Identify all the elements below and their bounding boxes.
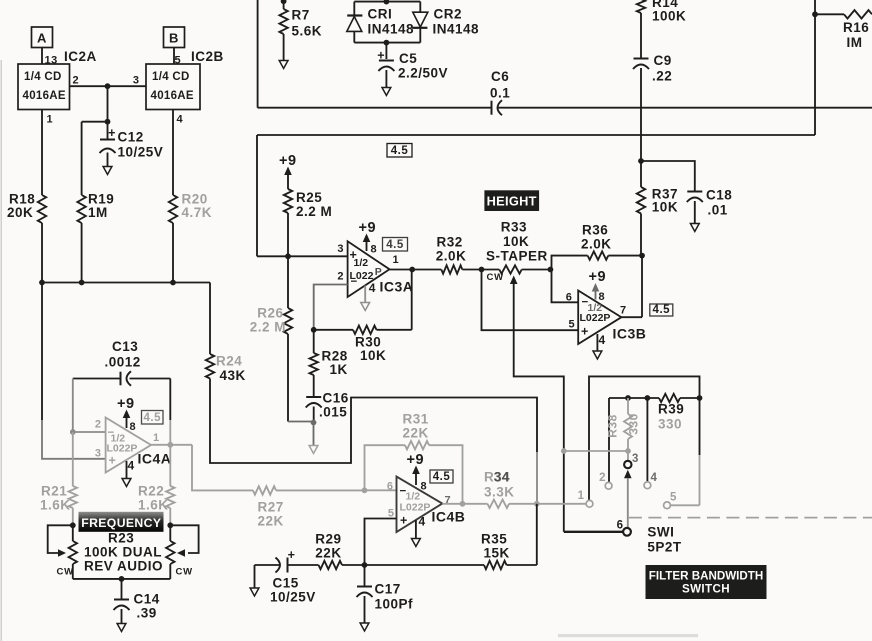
top box bottom wire (258, 107, 492, 109)
ground IC3B pin4 (596, 334, 598, 351)
svg-text:+9: +9 (589, 269, 607, 285)
svg-text:10K: 10K (360, 348, 386, 363)
junction bus R19 (79, 280, 85, 286)
svg-text:2: 2 (337, 271, 344, 283)
wire node B to IC2B (173, 48, 175, 65)
potentiometer R23 right half (169, 525, 171, 541)
svg-text:4.5: 4.5 (653, 304, 671, 316)
svg-text:1.6K: 1.6K (40, 498, 71, 513)
capacitor C17 100Pf (364, 565, 366, 586)
junction CR bottom (384, 40, 390, 46)
resistor R34 3.3K (463, 503, 488, 505)
wire R38 to contact3 (627, 451, 629, 461)
junction R23 left (70, 522, 76, 528)
svg-text:2: 2 (599, 472, 606, 484)
svg-text:1.6K: 1.6K (138, 498, 169, 513)
svg-text:+9: +9 (359, 220, 377, 236)
svg-text:C18: C18 (706, 188, 732, 203)
scan smudge bottom (558, 634, 698, 637)
net 4.5 box IC3A (383, 238, 408, 252)
switch IC2A 1/4 CD4016AE (18, 64, 70, 110)
resistor R30 10K (314, 329, 353, 331)
svg-text:R27: R27 (258, 500, 284, 515)
contact 5 SW1 (664, 502, 671, 509)
svg-text:15K: 15K (484, 546, 510, 561)
junction R23 right (167, 522, 173, 528)
capacitor C14 .39 (121, 579, 123, 599)
resistor R14 100K (637, 0, 645, 13)
svg-text:REV AUDIO: REV AUDIO (84, 559, 163, 574)
svg-text:R32: R32 (437, 235, 463, 250)
svg-text:4: 4 (651, 472, 658, 484)
svg-text:R21: R21 (41, 484, 67, 499)
contact 1 SW1 (586, 500, 593, 507)
diode CR2 IN4148 (419, 2, 421, 13)
junction R38 pole (561, 448, 567, 454)
wire C18 branch (641, 161, 695, 191)
wire C12 node down (107, 86, 109, 122)
capacitor C6 0.1 (491, 101, 493, 115)
svg-text:1/2: 1/2 (354, 257, 369, 269)
svg-text:1: 1 (153, 432, 160, 444)
wire IC4A pin2 (73, 431, 106, 433)
wiper bracket right R23 (170, 525, 198, 553)
svg-text:C13: C13 (112, 339, 138, 354)
wire IC4B out (442, 503, 462, 505)
junction R39 right (697, 395, 703, 401)
wire C13 right leg (169, 379, 171, 421)
resistor R32 2.0K (441, 265, 462, 273)
svg-text:IM: IM (847, 35, 863, 50)
label HEIGHT (484, 190, 539, 211)
wire R16 net vertical (814, 0, 816, 135)
svg-text:C15: C15 (273, 576, 299, 591)
wire IC4B pin6 (365, 489, 397, 491)
svg-text:C16: C16 (323, 391, 349, 406)
svg-text:+: + (400, 514, 408, 528)
svg-text:330: 330 (627, 413, 641, 435)
junction R28 R30 (311, 327, 317, 333)
net 4.5 box top (387, 144, 412, 158)
op-amp IC4A (106, 418, 151, 473)
wire IC3A pin2 (314, 285, 348, 330)
bus wire lower-left (42, 282, 210, 284)
svg-text:C9: C9 (654, 53, 672, 68)
node A input box (32, 27, 53, 48)
svg-text:.0012: .0012 (105, 355, 141, 370)
svg-text:10/25V: 10/25V (270, 590, 316, 605)
junction C14 (119, 576, 125, 582)
svg-text:R35: R35 (481, 532, 507, 547)
resistor R16 1M (815, 13, 844, 15)
wire IC3A out (390, 269, 442, 271)
svg-text:4016AE: 4016AE (23, 90, 66, 102)
wiper bracket left R23 (48, 525, 73, 553)
wire IC4A out route (192, 445, 253, 491)
resistor R25 2.2M (284, 189, 292, 213)
svg-text:4.5: 4.5 (144, 412, 162, 424)
lower box top wire (257, 134, 815, 136)
svg-text:CW: CW (57, 567, 74, 578)
wiper R33 to SW1 pole (510, 276, 518, 285)
junction R33 cw (479, 267, 485, 273)
svg-text:B: B (169, 31, 179, 46)
top box left edge (257, 0, 259, 108)
net 4.5 box IC4B (430, 470, 453, 483)
svg-text:SWITCH: SWITCH (682, 583, 730, 596)
resistor R37 10K (640, 161, 642, 187)
svg-text:5P2T: 5P2T (647, 540, 682, 555)
junction R36 R37 out (639, 253, 645, 259)
svg-text:8: 8 (371, 244, 378, 256)
svg-text:IC3B: IC3B (613, 326, 647, 342)
svg-text:FREQUENCY: FREQUENCY (81, 516, 161, 530)
junction IC4B out (460, 501, 466, 507)
resistor R31 22K (365, 445, 406, 490)
svg-text:2: 2 (73, 75, 80, 87)
resistor R19 1M (81, 122, 83, 195)
svg-text:330: 330 (658, 417, 682, 432)
svg-text:+9: +9 (407, 452, 425, 468)
svg-text:100Pf: 100Pf (375, 597, 414, 612)
svg-text:SWI: SWI (647, 525, 674, 540)
svg-text:C14: C14 (134, 592, 160, 607)
svg-text:IC4A: IC4A (138, 451, 172, 467)
svg-text:R25: R25 (296, 190, 322, 205)
resistor R26 2.2M (287, 256, 289, 308)
svg-text:IC2A: IC2A (64, 49, 97, 64)
contact 6 SW1 (623, 528, 631, 536)
wire contact2 feed (608, 398, 610, 482)
potentiometer R33 10K S-TAPER (499, 265, 521, 273)
wire R39 line (609, 397, 659, 399)
svg-text:2.2 M: 2.2 M (250, 320, 286, 335)
svg-text:5.6K: 5.6K (292, 24, 323, 39)
svg-text:8: 8 (130, 421, 137, 433)
ground IC4B pin4 (415, 520, 417, 539)
contact 4 SW1 (644, 482, 651, 489)
wire IC2A pin2 to node (70, 85, 147, 87)
wire R23 bottom (73, 578, 171, 580)
svg-text:4.5: 4.5 (391, 145, 409, 157)
svg-text:100K: 100K (652, 9, 686, 24)
wire node A to IC2A (41, 48, 43, 65)
svg-text:5: 5 (670, 492, 677, 504)
wire lower box left to pin3 (257, 255, 348, 257)
svg-text:4: 4 (419, 515, 426, 529)
contact 2 SW1 (605, 482, 612, 489)
svg-text:43K: 43K (220, 368, 246, 383)
wire R38 bottom branch (564, 450, 628, 452)
resistor R38 330 (627, 398, 629, 414)
contact 3 SW1 (624, 461, 631, 468)
ground C15 (250, 588, 259, 596)
junction R16 net (812, 11, 818, 17)
svg-text:.015: .015 (319, 405, 347, 420)
wire C13 left leg (72, 379, 74, 433)
svg-text:IC2B: IC2B (191, 49, 224, 64)
svg-text:4: 4 (369, 281, 376, 295)
junction bus R20 (170, 280, 176, 286)
svg-text:8: 8 (421, 481, 428, 493)
capacitor C9 .22 (634, 58, 649, 60)
svg-text:R22: R22 (138, 484, 164, 499)
svg-text:IC4B: IC4B (432, 509, 466, 525)
capacitor C15 10/25V (255, 564, 280, 566)
resistor R28 1K (313, 330, 315, 353)
junction R36 R33 (548, 267, 554, 273)
svg-text:R33: R33 (501, 220, 527, 235)
resistor R27 22K (253, 486, 276, 494)
wire contact1 to R39 right (589, 376, 700, 500)
wire IC4A out (151, 444, 192, 446)
junction C12 top (105, 119, 111, 125)
svg-text:3: 3 (337, 243, 344, 255)
resistor R36 2.0K (552, 256, 588, 303)
junction R38 top (625, 395, 631, 401)
svg-text:+9: +9 (279, 153, 297, 169)
svg-text:1/4 CD: 1/4 CD (24, 71, 62, 83)
svg-text:22K: 22K (258, 514, 284, 529)
wire R33 left to IC3B pin5 (482, 270, 579, 331)
svg-text:IC3A: IC3A (380, 279, 414, 295)
net 4.5 box IC3B (650, 304, 673, 316)
svg-text:R29: R29 (315, 532, 341, 547)
svg-text:5: 5 (569, 319, 576, 331)
svg-text:R36: R36 (582, 223, 608, 238)
op-amp IC4B (397, 477, 443, 533)
svg-text:S-TAPER: S-TAPER (486, 249, 548, 264)
svg-text:CRI: CRI (368, 7, 393, 22)
svg-text:+: + (108, 126, 116, 140)
svg-text:20K: 20K (7, 205, 33, 220)
svg-text:10K: 10K (652, 200, 678, 215)
junction IC2A pin2 / C12 (105, 83, 111, 89)
resistor R24 43K (206, 354, 214, 379)
ground C16 (313, 423, 315, 446)
resistor R20 4.7K (172, 110, 174, 196)
svg-text:4: 4 (599, 333, 606, 347)
svg-text:R16: R16 (843, 20, 869, 35)
svg-text:1: 1 (393, 254, 400, 266)
svg-text:7: 7 (620, 305, 627, 317)
wire CR bridge bottom (354, 42, 420, 44)
svg-text:100K DUAL: 100K DUAL (84, 545, 162, 560)
junction R34 R35 (534, 501, 540, 507)
junction IC3A out (409, 267, 415, 273)
svg-text:R7: R7 (292, 8, 310, 23)
wire R26 to C16 node (288, 421, 314, 423)
svg-text:6: 6 (566, 291, 573, 303)
svg-text:C6: C6 (491, 69, 509, 84)
svg-text:.01: .01 (708, 203, 728, 218)
capacitor C18 .01 (687, 191, 702, 193)
svg-text:4: 4 (128, 459, 135, 473)
svg-text:CR2: CR2 (434, 7, 463, 22)
svg-text:L022P: L022P (400, 502, 431, 514)
svg-text:0.1: 0.1 (490, 86, 510, 101)
wire contact5 feed (699, 398, 701, 455)
junction bus R18 (39, 280, 45, 286)
node B input box (164, 27, 185, 48)
junction R25 pin3 (285, 253, 291, 259)
svg-text:C12: C12 (118, 130, 144, 145)
svg-text:4: 4 (177, 114, 184, 126)
svg-text:22K: 22K (315, 546, 341, 561)
capacitor C16 .015 (306, 396, 321, 398)
svg-text:3: 3 (95, 448, 102, 460)
junction CR top (384, 0, 390, 5)
junction C17 (362, 562, 368, 568)
junction IC4A pin2 (70, 429, 76, 435)
junction R38 bottom (625, 448, 631, 454)
wire contact4 feed (646, 398, 648, 482)
resistor R39 330 (659, 394, 680, 402)
svg-text:.39: .39 (137, 606, 157, 621)
resistor R7 5.6K (281, 0, 287, 4)
resistor R29 22K (319, 561, 343, 569)
resistor R22 1.6K (169, 445, 171, 486)
svg-text:2: 2 (95, 419, 102, 431)
svg-text:+: + (109, 454, 117, 468)
junction C16 ground (311, 420, 317, 426)
svg-text:FILTER BANDWIDTH: FILTER BANDWIDTH (649, 570, 763, 583)
svg-text:CW: CW (176, 567, 193, 578)
dashed net line (629, 517, 872, 519)
wire IC3B out (621, 316, 642, 318)
wire bus to IC4A pin3 (41, 283, 43, 421)
svg-text:4.7K: 4.7K (182, 205, 213, 220)
svg-text:R26: R26 (257, 306, 283, 321)
junction R37 top (638, 158, 644, 164)
svg-text:2.0K: 2.0K (436, 249, 467, 264)
svg-text:+: + (288, 548, 296, 562)
svg-text:1K: 1K (330, 362, 348, 377)
svg-text:R39: R39 (658, 402, 684, 417)
svg-text:HEIGHT: HEIGHT (487, 193, 537, 208)
junction IC4A out (167, 442, 173, 448)
svg-text:A: A (37, 31, 47, 46)
wire bus to R35 (365, 564, 485, 566)
svg-text:6: 6 (387, 481, 394, 493)
junction IC4B pin6 (362, 487, 368, 493)
op-amp IC3A (348, 241, 390, 297)
svg-text:IN4148: IN4148 (368, 22, 415, 37)
svg-text:R38: R38 (606, 414, 620, 438)
svg-text:10/25V: 10/25V (118, 145, 164, 160)
wire bus corner路 (209, 283, 211, 355)
svg-text:R24: R24 (216, 354, 242, 369)
svg-text:4.5: 4.5 (386, 239, 404, 251)
switch IC2B 1/4 CD4016AE (146, 64, 200, 110)
svg-text:R23: R23 (108, 531, 134, 546)
net 4.5 box IC4A (142, 411, 164, 425)
svg-text:+: + (581, 325, 589, 339)
svg-text:34: 34 (494, 470, 510, 485)
svg-text:P: P (375, 266, 383, 278)
ground IC3A pin4 (364, 286, 366, 303)
svg-text:1: 1 (47, 114, 54, 126)
svg-text:IN4148: IN4148 (433, 22, 480, 37)
scan edge artifact left (0, 60, 2, 641)
svg-text:2.0K: 2.0K (581, 237, 612, 252)
svg-text:C17: C17 (375, 582, 401, 597)
resistor R18 20K (41, 110, 43, 196)
svg-text:4016AE: 4016AE (151, 90, 194, 102)
wire C12 node to R19 (82, 121, 108, 123)
svg-text:L022P: L022P (580, 312, 611, 324)
wiper arrow SW1 (624, 470, 632, 479)
junction contact4 feed (645, 395, 651, 401)
wire to R34 node (536, 452, 538, 504)
potentiometer R23 left half (72, 525, 74, 541)
lower box left edge (256, 135, 258, 256)
resistor R35 15K (484, 561, 507, 569)
svg-text:10K: 10K (503, 234, 529, 249)
svg-text:3: 3 (632, 453, 639, 465)
svg-text:1M: 1M (88, 205, 108, 220)
svg-text:3.3K: 3.3K (484, 485, 515, 500)
svg-text:2.2/50V: 2.2/50V (398, 66, 448, 81)
svg-text:R31: R31 (403, 412, 429, 427)
svg-text:6: 6 (617, 520, 624, 532)
op-amp IC3B (578, 291, 621, 345)
svg-text:1/4 CD: 1/4 CD (152, 71, 190, 83)
wire CR bridge top (354, 1, 420, 3)
capacitor C5 2.2/50V (385, 43, 387, 59)
svg-text:2.2 M: 2.2 M (296, 204, 332, 219)
svg-text:+9: +9 (117, 396, 135, 412)
capacitor C12 10/25V (107, 122, 109, 139)
svg-text:C5: C5 (399, 51, 417, 66)
svg-text:22K: 22K (403, 426, 429, 441)
resistor R21 1.6K (72, 432, 74, 486)
label FILTER BANDWIDTH SWITCH (646, 565, 767, 599)
svg-text:.22: .22 (652, 69, 672, 84)
wire IC4B pin5 (365, 519, 397, 566)
svg-text:4.5: 4.5 (433, 471, 451, 483)
svg-text:8: 8 (599, 291, 606, 303)
diode CR1 IN4148 (353, 2, 355, 15)
svg-text:1: 1 (578, 490, 585, 502)
svg-text:3: 3 (133, 75, 140, 87)
